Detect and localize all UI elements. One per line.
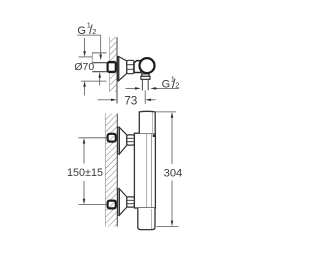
supply pipe stub G1/2 (top view) [92,63,110,72]
up arrow to pipe bottom edge (G1/2 left) [98,72,101,86]
top cap highlight line [152,112,154,132]
svg-text:304: 304 [164,167,183,179]
bottom union: nipple square (front view) [108,201,116,209]
nipple square (top view) [108,62,116,72]
bottom cylinder highlight line [151,209,153,229]
svg-text:73: 73 [124,94,138,108]
arrow left to outlet pipe right edge [150,87,158,90]
outlet pipe (top view) [142,79,148,90]
dimension 73 (top view) [98,90,156,107]
valve body neck (top view) [134,61,141,73]
outlet stub detail (front view, right of body top) [153,134,156,137]
top union: nut [127,135,135,145]
svg-text:Ø70: Ø70 [74,61,94,73]
top union: escutcheon cone [118,127,127,154]
mixer body (front view) [134,133,155,208]
leader + down arrow to pipe top edge (G1/2 left) [99,35,102,60]
valve body circle (top view) [140,58,155,73]
wall (top view, hatched band) [110,37,117,104]
svg-text:2: 2 [175,80,179,89]
union nut (top view) [127,60,134,73]
label G1/2 (top view, outlet pipe) [154,74,180,91]
dimension 304 (front view) [156,112,182,226]
bottom union: escutcheon cone [118,189,127,215]
shower outlet flange (top view) [141,74,150,79]
bottom cylinder cap (front view) [138,208,155,230]
svg-text:150±15: 150±15 [67,167,103,179]
label G1/2 (top-left) [77,21,100,38]
top cap (front view) [139,111,155,133]
dimension 150±15 (front view) [67,138,108,205]
arrow right to outlet pipe left edge [126,87,141,90]
dimension Ø70 (top view escutcheon) [74,38,106,95]
bottom union: nut [127,197,135,207]
wall (front view, hatched band) [105,114,117,227]
escutcheon cone Ø70 (top view) [118,57,127,81]
svg-text:2: 2 [92,27,96,36]
top union: nipple square (front view) [108,134,116,142]
